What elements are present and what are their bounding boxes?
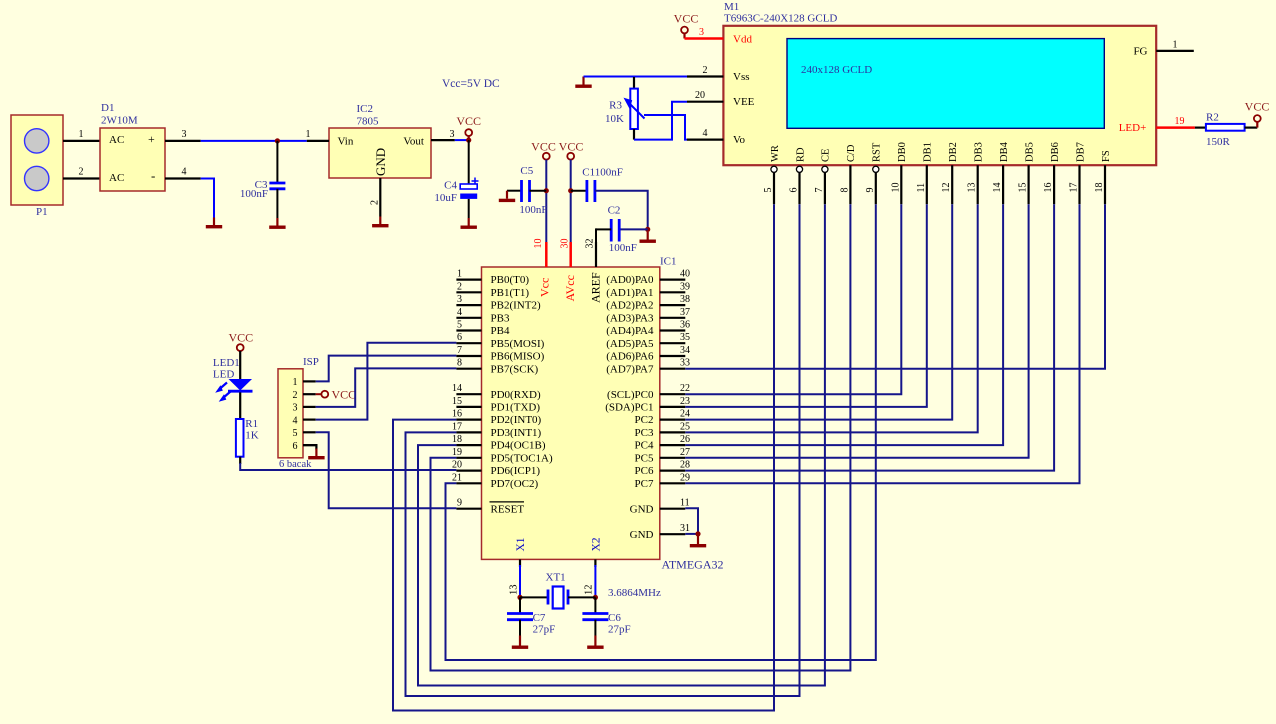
svg-text:(AD3)PA3: (AD3)PA3 [606,312,654,324]
svg-text:AC: AC [109,134,124,146]
svg-text:4: 4 [703,128,708,139]
ground ISP pin6 [308,449,324,460]
svg-text:WR: WR [770,145,781,162]
svg-text:18: 18 [452,434,462,445]
svg-text:2: 2 [293,390,298,401]
svg-text:DB6: DB6 [1050,142,1061,162]
IC1 pin 11 GND [660,508,686,510]
svg-text:-: - [151,168,155,183]
IC1 pin 13 X1 [519,559,521,567]
microcontroller IC1 ATMEGA32 [482,267,660,559]
wire R1 to PD6 ICP1 [239,457,241,464]
display screen area [787,39,1104,129]
VCC power node ISP pin2 [316,393,322,395]
svg-text:(AD4)PA4: (AD4)PA4 [606,325,654,337]
svg-text:Vout: Vout [403,136,424,148]
svg-text:7: 7 [457,345,462,356]
svg-text:4: 4 [182,167,187,178]
svg-text:DB4: DB4 [999,141,1010,162]
capacitor C2 100nF [619,228,648,230]
svg-text:PD5(TOC1A): PD5(TOC1A) [491,452,553,464]
junction [568,188,573,193]
svg-text:16: 16 [452,409,462,420]
svg-text:ATMEGA32: ATMEGA32 [662,558,724,572]
svg-text:30: 30 [560,239,571,249]
IC1 pin 22 (SCL)PC0 [660,393,686,395]
capacitor C5 100nF [507,190,522,192]
IC1 pin 14 PD0(RXD) [456,393,481,395]
IC1 pin 21 PD7(OC2) [456,482,481,484]
ground [206,218,222,229]
svg-text:4: 4 [457,307,462,318]
wire PD net to display CE [418,204,825,685]
bridge rectifier D1 [100,128,165,191]
IC1 pin 24 PC2 [660,419,686,421]
IC1 pin 31 GND [660,533,686,535]
wire VCC to Vcc pin [545,160,547,242]
LED diode LED1 [229,379,253,391]
svg-text:7805: 7805 [357,116,380,128]
wire ISP pin6 to ground [303,445,316,449]
junction [466,138,471,143]
wire D1+ to Vin [201,140,307,142]
svg-text:VCC: VCC [332,388,357,402]
svg-text:PC6: PC6 [635,465,654,477]
VCC power node [543,153,550,160]
pin 2 IC2 GND [379,178,381,217]
svg-text:PC5: PC5 [635,452,654,464]
svg-text:21: 21 [452,472,462,483]
svg-text:2: 2 [79,167,84,178]
IC1 pin 4 PB3 [456,317,481,319]
VCC power node [321,391,328,398]
svg-text:RST: RST [872,142,883,162]
svg-text:3: 3 [182,129,187,140]
svg-text:13: 13 [508,585,519,596]
wire PC7 to display DB7 [685,204,1079,483]
svg-text:FG: FG [1133,45,1147,57]
svg-text:5: 5 [763,188,774,193]
svg-text:10uF: 10uF [434,192,457,204]
svg-text:28: 28 [680,460,690,471]
svg-text:DB0: DB0 [897,142,908,162]
wire pot bottom to VEE [634,102,687,140]
svg-text:6: 6 [457,332,462,343]
svg-text:3: 3 [293,403,298,414]
IC1 pin 38 (AD2)PA2 [660,304,686,306]
svg-text:38: 38 [680,294,690,305]
IC1 pin 9 RESET [456,508,481,510]
svg-text:9: 9 [457,498,462,509]
svg-text:C2: C2 [608,205,621,217]
svg-text:100nF: 100nF [240,188,268,200]
wire ISP pin1 to PB6 MISO [316,356,457,382]
capacitor C1 100nF [571,190,587,192]
svg-text:1: 1 [1173,39,1178,50]
IC1 pin 25 PC3 [660,431,686,433]
IC1 pin 8 PB7(SCK) [456,368,481,370]
svg-text:24: 24 [680,409,690,420]
svg-text:6: 6 [293,441,298,452]
ground C7 [512,636,528,649]
svg-text:2: 2 [703,65,708,76]
pin 3 IC2 [431,139,455,141]
IC1 pin 2 PB1(T1) [456,291,481,293]
svg-text:37: 37 [680,307,690,318]
pin 4 Vo [687,139,723,141]
svg-text:ISP: ISP [303,356,319,368]
svg-text:1: 1 [79,129,84,140]
pin 1 IC2 [307,140,329,142]
svg-text:2W10M: 2W10M [101,115,138,127]
ISP pin 3 [303,406,316,408]
svg-text:40: 40 [680,269,690,280]
svg-text:R2: R2 [1206,112,1219,124]
svg-text:10: 10 [533,239,544,249]
svg-text:10K: 10K [605,113,624,125]
junction [275,138,280,143]
svg-text:150R: 150R [1206,136,1231,148]
IC1 pin 1 PB0(T0) [456,279,481,281]
svg-text:PD7(OC2): PD7(OC2) [491,478,539,490]
IC1 pin 10 Vcc red stub [545,242,548,267]
svg-text:AVcc: AVcc [563,275,577,301]
svg-text:1: 1 [293,377,298,388]
svg-text:C/D: C/D [846,144,857,162]
ISP pin 2 [303,393,316,395]
svg-text:T6963C-240X128 GCLD: T6963C-240X128 GCLD [724,13,837,25]
svg-text:3: 3 [699,27,704,38]
svg-text:P1: P1 [36,206,48,218]
capacitor C3 100nF [276,141,278,183]
IC1 pin 18 PD4(OC1B) [456,444,481,446]
wire X2 down [594,565,596,597]
svg-text:19: 19 [1175,116,1185,127]
IC1 pin 17 PD3(INT1) [456,431,481,433]
VCC power node display Vdd [681,27,688,34]
svg-text:14: 14 [992,183,1003,193]
svg-text:VEE: VEE [733,96,755,108]
IC1 pin 7 PB6(MISO) [456,355,481,357]
regulator IC2 7805 [329,128,431,178]
svg-text:(SDA)PC1: (SDA)PC1 [605,402,653,414]
junction [544,188,549,193]
svg-text:20: 20 [695,90,705,101]
svg-text:29: 29 [680,472,690,483]
svg-text:PB6(MISO): PB6(MISO) [491,351,545,363]
svg-text:LED1: LED1 [213,357,240,369]
svg-text:1: 1 [306,129,311,140]
svg-text:VCC: VCC [559,139,584,153]
svg-text:PD2(INT0): PD2(INT0) [491,414,542,426]
svg-text:2: 2 [369,200,380,205]
pin 2 P1-D1 [63,177,100,179]
svg-text:12: 12 [941,183,952,193]
svg-text:PC3: PC3 [635,427,654,439]
svg-text:M1: M1 [724,1,739,13]
crystal XT1 3.6864MHz [520,596,548,598]
wire C1 to C2 junction [595,191,648,230]
wire PD net to display WR [393,204,774,710]
VCC power node at 7805 output [465,129,472,136]
svg-text:25: 25 [680,421,690,432]
display module M1 T6963C-240X128 GCLD [723,26,1156,165]
capacitor C4 10uF electrolytic [468,140,470,184]
svg-text:AC: AC [109,172,124,184]
svg-text:3: 3 [457,294,462,305]
svg-text:PD1(TXD): PD1(TXD) [491,402,541,414]
wire VCC to LED anode [239,351,241,379]
wire PD net to display RD [406,204,800,696]
svg-text:8: 8 [839,188,850,193]
svg-text:DB7: DB7 [1075,142,1086,162]
svg-text:31: 31 [680,523,690,534]
svg-text:VCC: VCC [674,12,699,26]
ground IC1 GND [690,536,706,547]
ISP pin 5 [303,431,316,433]
capacitor C6 27pF [594,597,596,613]
wire D1- down [201,179,214,218]
ground [269,218,285,229]
svg-text:Vdd: Vdd [733,33,752,45]
ground [461,218,477,229]
wire GND pins to ground [685,508,698,534]
wire LED cathode to R1 [239,392,241,419]
VCC power node [237,344,244,351]
svg-text:VCC: VCC [228,331,253,345]
svg-text:FS: FS [1101,150,1112,162]
wire pot top rail [584,76,635,78]
pin 1 P1-D1 [63,140,100,142]
wire C2 to AREF [595,228,597,242]
IC1 pin 16 PD2(INT0) [456,419,481,421]
IC1 pin 40 (AD0)PA0 [660,279,686,281]
IC1 pin 6 PB5(MOSI) [456,342,481,344]
svg-text:DB5: DB5 [1024,142,1035,162]
svg-text:12: 12 [584,585,595,596]
wire PC5 to display DB5 [685,204,1028,458]
ground [372,217,388,228]
wire X1 down [519,565,521,597]
svg-text:PB4: PB4 [491,325,510,337]
wire ISP pin4 to PB5 MOSI [316,343,457,420]
svg-text:(AD1)PA1: (AD1)PA1 [606,287,653,299]
svg-text:(AD2)PA2: (AD2)PA2 [606,300,653,312]
svg-text:C4: C4 [444,180,457,192]
IC1 pin 29 PC7 [660,482,686,484]
svg-text:XT1: XT1 [546,572,566,584]
wire Vout to VCC [455,139,469,141]
svg-text:PB0(T0): PB0(T0) [491,274,530,286]
svg-text:240x128 GCLD: 240x128 GCLD [801,64,872,76]
wire pot wiper to Vo [644,115,687,140]
pin 2 Vss [687,75,723,77]
ground Vss rail [575,77,591,88]
svg-text:C1100nF: C1100nF [582,166,623,178]
svg-text:PB2(INT2): PB2(INT2) [491,300,541,312]
svg-text:34: 34 [680,345,690,356]
svg-text:D1: D1 [101,102,114,114]
svg-text:PC7: PC7 [635,478,654,490]
connector ISP 6 bacak [278,369,303,458]
wire VCC to AVcc pin [570,160,572,242]
svg-text:Vo: Vo [733,134,746,146]
wire ISP pin5 to RESET [316,432,457,508]
svg-text:(AD6)PA6: (AD6)PA6 [606,351,654,363]
svg-text:LED: LED [213,369,234,381]
svg-text:(SCL)PC0: (SCL)PC0 [607,389,654,401]
wire PC4 to display DB4 [685,204,1003,445]
svg-text:23: 23 [680,396,690,407]
junction GND [695,531,700,536]
svg-text:15: 15 [1018,183,1029,193]
pin 4 D1 [165,177,201,179]
svg-text:C6: C6 [608,612,621,624]
svg-text:11: 11 [680,498,690,509]
svg-text:27: 27 [680,447,690,458]
svg-text:20: 20 [452,460,462,471]
svg-text:9: 9 [865,188,876,193]
svg-text:PD0(RXD): PD0(RXD) [491,389,541,401]
svg-text:5: 5 [457,320,462,331]
junction [645,227,650,232]
svg-text:6: 6 [789,188,800,193]
svg-text:Vcc=5V DC: Vcc=5V DC [442,78,500,90]
svg-text:PD4(OC1B): PD4(OC1B) [491,440,546,452]
ground C6 [587,636,603,649]
svg-text:1K: 1K [245,430,258,442]
svg-text:X1: X1 [515,537,527,551]
ground C2 [640,232,656,243]
svg-text:17: 17 [1069,183,1080,193]
VCC power node R2 [1254,115,1261,122]
pin 20 VEE [687,101,723,103]
svg-text:22: 22 [680,383,690,394]
svg-text:PC2: PC2 [635,414,654,426]
IC1 pin 28 PC6 [660,470,686,472]
svg-text:8: 8 [457,358,462,369]
svg-text:39: 39 [680,281,690,292]
potentiometer R3 10K [633,77,635,89]
svg-text:Vcc: Vcc [537,278,551,297]
svg-text:100nF: 100nF [609,242,637,254]
wire PC2 to display DB2 [685,204,952,419]
svg-text:18: 18 [1094,183,1105,193]
svg-text:33: 33 [680,358,690,369]
svg-text:3.6864MHz: 3.6864MHz [608,587,661,599]
wire PD net to display RST [446,204,876,660]
svg-text:5: 5 [293,428,298,439]
ground C5 [499,191,515,202]
svg-text:Vss: Vss [733,71,750,83]
svg-text:100nF: 100nF [519,204,547,216]
VCC power node [567,153,574,160]
junction [593,595,598,600]
svg-text:AREF: AREF [589,272,603,303]
IC1 pin 20 PD6(ICP1) [456,470,481,472]
svg-text:32: 32 [585,239,596,249]
svg-text:GND: GND [630,529,654,541]
wire PA7 to display FS [685,204,1105,369]
svg-text:DB3: DB3 [974,142,985,162]
svg-text:10: 10 [890,183,901,193]
svg-text:PB7(SCK): PB7(SCK) [491,363,539,375]
IC1 pin 30 AVcc red stub [569,242,572,267]
capacitor C7 27pF [519,597,521,613]
IC1 pin 12 X2 [594,559,596,567]
svg-text:LED+: LED+ [1119,122,1147,134]
svg-text:IC1: IC1 [660,256,677,268]
svg-text:IC2: IC2 [357,103,374,115]
svg-text:1: 1 [457,269,462,280]
svg-text:GND: GND [630,503,654,515]
svg-text:6 bacak: 6 bacak [279,459,312,470]
svg-text:GND: GND [373,148,388,176]
wire PC3 to display DB3 [685,204,977,432]
svg-text:7: 7 [814,188,825,193]
IC1 pin 23 (SDA)PC1 [660,406,686,408]
wire PD net to display C/D [431,204,851,670]
svg-text:11: 11 [916,183,927,193]
svg-text:13: 13 [967,183,978,193]
IC1 pin 34 (AD6)PA6 [660,355,686,357]
IC1 pin 15 PD1(TXD) [456,406,481,408]
svg-text:Vin: Vin [338,136,354,148]
LED arrows [220,383,228,390]
svg-text:C7: C7 [533,612,546,624]
IC1 pin 33 (AD7)PA7 [660,368,686,370]
IC1 pin 3 PB2(INT2) [456,304,481,306]
IC1 pin 36 (AD4)PA4 [660,329,686,331]
svg-text:27pF: 27pF [533,624,556,636]
wire PC1 to display DB1 [685,204,927,407]
svg-text:R1: R1 [245,418,258,430]
svg-text:CE: CE [821,149,832,162]
IC1 pin 37 (AD3)PA3 [660,317,686,319]
svg-text:14: 14 [452,383,462,394]
IC1 pin 35 (AD5)PA5 [660,342,686,344]
svg-text:VCC: VCC [531,139,556,153]
svg-text:PD6(ICP1): PD6(ICP1) [491,465,541,477]
svg-text:VCC: VCC [456,114,481,128]
resistor R2 150R [1195,126,1206,128]
ISP pin 1 [303,380,316,382]
svg-text:PB1(T1): PB1(T1) [491,287,530,299]
svg-text:2: 2 [457,281,462,292]
svg-text:R3: R3 [609,100,622,112]
svg-text:35: 35 [680,332,690,343]
IC1 pin 32 AREF stub [595,242,597,267]
svg-text:RESET: RESET [491,503,525,515]
svg-text:36: 36 [680,320,690,331]
IC1 pin 26 PC4 [660,444,686,446]
svg-text:4: 4 [293,415,298,426]
wire PC6 to display DB6 [685,204,1054,470]
svg-text:(AD0)PA0: (AD0)PA0 [606,274,654,286]
svg-text:PD3(INT1): PD3(INT1) [491,427,542,439]
svg-text:X2: X2 [590,537,602,551]
svg-text:15: 15 [452,396,462,407]
svg-text:3: 3 [450,129,455,140]
svg-text:(AD5)PA5: (AD5)PA5 [606,338,654,350]
svg-text:19: 19 [452,447,462,458]
ISP pin 4 [303,419,316,421]
resistor R1 1K [236,419,244,457]
svg-text:C5: C5 [520,165,533,177]
svg-text:PC4: PC4 [635,440,654,452]
svg-text:16: 16 [1043,183,1054,193]
IC1 pin 39 (AD1)PA1 [660,291,686,293]
